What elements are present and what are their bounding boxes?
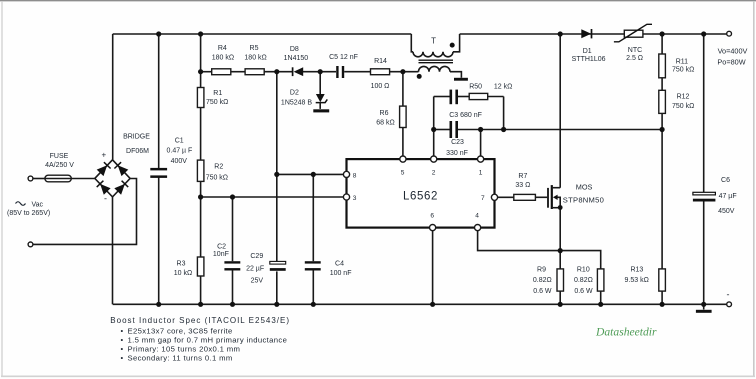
wire pin1 riser — [480, 130, 482, 157]
pin 5 — [400, 156, 406, 162]
svg-text:R3: R3 — [177, 261, 186, 268]
resistor R13 — [625, 267, 666, 292]
svg-text:33 Ω: 33 Ω — [515, 182, 530, 189]
svg-text:R13: R13 — [630, 267, 643, 274]
svg-text:R9: R9 — [537, 267, 546, 274]
resistor R6 — [376, 106, 406, 127]
svg-text:C5 12 nF: C5 12 nF — [329, 54, 358, 61]
output terminal - — [727, 290, 732, 307]
wire comp lower row / feedback line — [434, 129, 662, 131]
svg-text:R1: R1 — [213, 90, 222, 97]
svg-text:R12: R12 — [677, 94, 690, 101]
resistor R1 — [197, 88, 228, 108]
svg-text:R50: R50 — [469, 84, 482, 91]
wire C4 riser — [312, 174, 314, 304]
resistor R5 — [244, 45, 266, 75]
wire C1 riser — [158, 34, 160, 304]
svg-text:2: 2 — [432, 169, 436, 176]
svg-text:DF06M: DF06M — [126, 148, 149, 155]
svg-text:C6: C6 — [721, 177, 730, 184]
svg-text:•: • — [121, 336, 124, 345]
svg-text:450V: 450V — [718, 208, 735, 215]
transistor Q1 MOS STP8NM50 — [548, 183, 604, 210]
svg-text:R11: R11 — [676, 58, 688, 65]
svg-text:10nF: 10nF — [213, 251, 229, 258]
svg-text:-: - — [727, 290, 730, 300]
wire pin6 riser to ground rail — [432, 231, 434, 305]
svg-text:R2: R2 — [214, 163, 223, 170]
wire pin4 to source sense — [478, 231, 561, 251]
diode D1 — [572, 29, 606, 63]
capacitor C29 — [246, 253, 286, 285]
wire pin7 to R7 to gate — [498, 196, 548, 198]
watermark Datasheetdir — [595, 326, 657, 339]
resistor R2 — [197, 160, 228, 182]
svg-text:Secondary: 11 turns 0.1 mm: Secondary: 11 turns 0.1 mm — [128, 354, 233, 363]
bridge rectifier DF06M — [95, 134, 150, 204]
svg-text:Vo=400V: Vo=400V — [718, 47, 748, 56]
svg-text:-: - — [104, 194, 107, 204]
svg-text:MOS: MOS — [576, 183, 593, 192]
svg-text:R10: R10 — [577, 267, 590, 274]
junction dots R4 row — [198, 69, 406, 74]
capacitor C5 — [329, 54, 358, 78]
svg-text:BRIDGE: BRIDGE — [123, 134, 150, 141]
svg-text:T: T — [431, 37, 436, 46]
svg-text:0.6 W: 0.6 W — [574, 288, 593, 295]
svg-text:7: 7 — [481, 195, 485, 202]
svg-text:•: • — [121, 345, 124, 354]
wire Vcc row to pin 8 — [277, 173, 344, 175]
svg-text:R7: R7 — [518, 173, 527, 180]
wire comp upper row — [434, 97, 504, 130]
svg-text:4: 4 — [475, 212, 479, 219]
zener diode D2 — [281, 72, 329, 113]
pin 6 — [430, 225, 436, 231]
svg-text:47 µF: 47 µF — [719, 193, 737, 200]
thermistor NTC — [614, 24, 652, 62]
svg-text:8: 8 — [353, 172, 357, 179]
svg-text:(85V to 265V): (85V to 265V) — [7, 210, 50, 217]
capacitor C3 — [449, 90, 482, 119]
svg-text:R5: R5 — [250, 45, 259, 52]
capacitor C2 — [213, 243, 240, 270]
wire MULT row to pin 3 — [201, 196, 344, 198]
svg-text:330 nF: 330 nF — [446, 150, 468, 157]
ground output rail — [696, 304, 712, 313]
svg-text:C3 680 nF: C3 680 nF — [449, 112, 482, 119]
svg-text:12 kΩ: 12 kΩ — [494, 84, 512, 91]
wire MOS drain riser — [559, 34, 561, 188]
svg-text:180 kΩ: 180 kΩ — [244, 54, 266, 61]
svg-text:R14: R14 — [374, 58, 387, 65]
svg-text:C2: C2 — [217, 243, 226, 250]
wire AC input bottom return — [33, 179, 137, 245]
svg-text:180 kΩ: 180 kΩ — [212, 54, 234, 61]
svg-text:FUSE: FUSE — [50, 153, 69, 160]
pin 2 — [431, 156, 437, 162]
svg-text:E25x13x7 core, 3C85 ferrite: E25x13x7 core, 3C85 ferrite — [128, 326, 233, 335]
pin 3 — [343, 194, 349, 200]
svg-text:C4: C4 — [335, 261, 344, 268]
svg-text:R4: R4 — [218, 45, 227, 52]
node Vo label — [717, 47, 747, 67]
svg-text:0.82Ω: 0.82Ω — [574, 277, 593, 284]
resistor R7 — [514, 173, 536, 200]
svg-text:2.5 Ω: 2.5 Ω — [626, 55, 643, 62]
resistor R11 — [659, 54, 695, 78]
junction dots bottom rail — [156, 302, 706, 307]
svg-text:750 kΩ: 750 kΩ — [672, 103, 694, 110]
junction dots MULT row — [198, 194, 235, 199]
fuse F1 — [45, 153, 74, 182]
svg-text:0.6 W: 0.6 W — [533, 288, 552, 295]
svg-text:Primary: 105 turns 20x0.1 mm: Primary: 105 turns 20x0.1 mm — [128, 345, 241, 354]
resistor R9 — [533, 267, 564, 296]
pin 1 — [478, 156, 484, 162]
svg-text:•: • — [121, 354, 124, 363]
svg-text:Datasheetdir: Datasheetdir — [595, 326, 657, 339]
svg-text:100 nF: 100 nF — [330, 270, 352, 277]
svg-text:L6562: L6562 — [403, 190, 438, 202]
svg-text:1.5 mm gap for 0.7 mH primary: 1.5 mm gap for 0.7 mH primary inductance — [128, 336, 288, 345]
wire Vcc feed riser (D8 node down to C29) — [276, 72, 278, 305]
pin 7 — [491, 194, 497, 200]
op-amp U1 L6562 controller — [343, 156, 497, 231]
wire C6 riser — [703, 34, 705, 304]
svg-text:D1: D1 — [583, 48, 592, 55]
svg-text:C23: C23 — [451, 139, 464, 146]
svg-text:0.47 µ F: 0.47 µ F — [166, 148, 192, 155]
resistor R10 — [574, 267, 604, 296]
junction dots feedback row — [431, 127, 665, 132]
svg-text:1N5248 B: 1N5248 B — [281, 100, 312, 107]
capacitor C4 — [305, 261, 352, 278]
svg-text:4A/250 V: 4A/250 V — [45, 162, 74, 169]
svg-text:400V: 400V — [171, 158, 188, 165]
svg-text:Boost Inductor Spec (ITACOIL E: Boost Inductor Spec (ITACOIL E2543/E) — [110, 316, 290, 325]
capacitor C1 — [150, 137, 192, 178]
AC input terminal top — [28, 176, 33, 181]
wire AC input top to fuse to bridge — [33, 178, 96, 180]
boost inductor spec note — [110, 316, 290, 363]
wire R11 R12 chain riser — [661, 34, 663, 304]
wire R9 branch — [559, 208, 561, 305]
svg-text:NTC: NTC — [628, 47, 642, 54]
node Vac label — [7, 201, 50, 217]
svg-text:Vac: Vac — [32, 201, 44, 208]
svg-text:68 kΩ: 68 kΩ — [376, 119, 394, 126]
output terminal + — [727, 31, 732, 36]
capacitor C23 — [446, 121, 468, 157]
wire left drop to bridge — [112, 34, 114, 161]
svg-text:R6: R6 — [380, 110, 389, 117]
wire C2 riser — [232, 197, 234, 304]
junction dots top rail — [156, 31, 706, 36]
svg-text:750 kΩ: 750 kΩ — [672, 67, 694, 74]
svg-text:C29: C29 — [250, 253, 263, 260]
wire pin2 riser — [433, 97, 435, 157]
junction dot sense node — [558, 248, 563, 253]
svg-text:C1: C1 — [175, 137, 184, 144]
wire R1 R2 R3 chain riser — [200, 34, 202, 304]
svg-text:750 kΩ: 750 kΩ — [206, 175, 228, 182]
wire top rail left segment — [113, 33, 412, 35]
wire top rail right segment — [460, 33, 727, 35]
transformer T — [411, 34, 468, 81]
wire R10 branch — [560, 251, 601, 305]
svg-text:•: • — [121, 326, 124, 335]
svg-text:9.53 kΩ: 9.53 kΩ — [625, 277, 649, 284]
svg-text:3: 3 — [353, 195, 357, 202]
svg-text:+: + — [102, 151, 107, 160]
resistor R12 — [659, 90, 695, 113]
svg-text:D2: D2 — [290, 89, 299, 96]
resistor R3 — [174, 257, 204, 277]
svg-text:Po=80W: Po=80W — [717, 58, 745, 67]
svg-text:D8: D8 — [290, 46, 299, 53]
pin 8 — [343, 171, 349, 177]
svg-text:10 kΩ: 10 kΩ — [174, 270, 192, 277]
svg-text:STP8NM50: STP8NM50 — [563, 196, 604, 205]
svg-text:STTH1L06: STTH1L06 — [572, 56, 606, 63]
svg-text:1N4150: 1N4150 — [284, 55, 309, 62]
wire bridge bottom riser — [112, 197, 114, 304]
svg-text:1: 1 — [479, 170, 483, 177]
wire pin5 riser through R6 — [402, 72, 404, 157]
svg-text:5: 5 — [401, 169, 405, 176]
resistor R14 — [371, 58, 390, 90]
wire R4 row — [201, 71, 419, 73]
AC input terminal bottom — [28, 242, 33, 247]
wire bottom rail — [113, 303, 727, 305]
capacitor C6 — [693, 177, 737, 215]
svg-text:25V: 25V — [251, 278, 264, 285]
svg-text:100 Ω: 100 Ω — [371, 83, 390, 90]
resistor R4 — [212, 45, 234, 75]
pin 4 — [475, 225, 481, 231]
diode D8 — [284, 46, 309, 76]
svg-text:750 kΩ: 750 kΩ — [206, 99, 228, 106]
resistor R50 — [469, 84, 512, 100]
svg-text:22 µF: 22 µF — [246, 265, 264, 272]
svg-text:6: 6 — [430, 212, 434, 219]
junction dots Vcc row — [274, 172, 316, 177]
svg-text:0.82Ω: 0.82Ω — [533, 277, 552, 284]
